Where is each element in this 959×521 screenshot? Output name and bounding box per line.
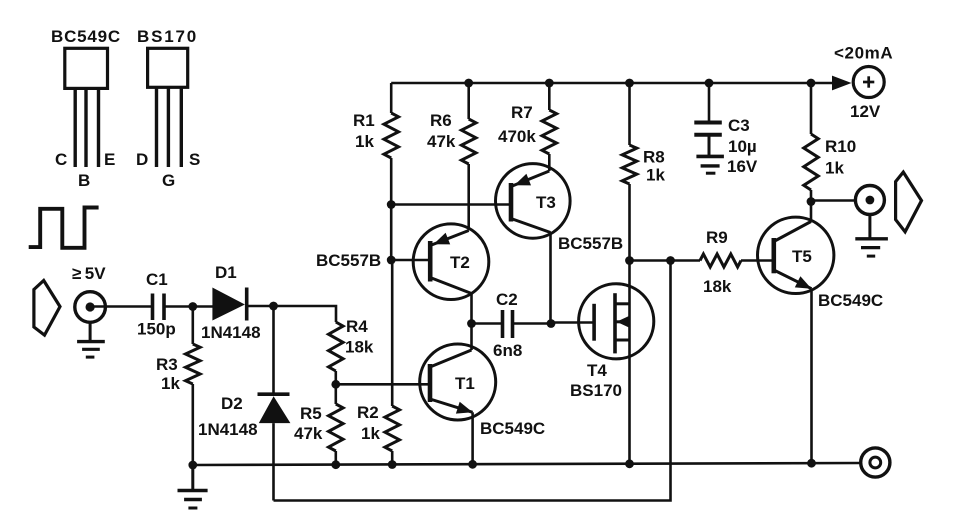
resistor R2 (1k) — [357, 260, 400, 465]
svg-text:R8: R8 — [643, 148, 665, 167]
resistor R5 (47k) — [294, 384, 343, 465]
wire T3 base — [391, 203, 511, 206]
junction node R8/T4-drain — [625, 256, 634, 265]
wire connector to C1 — [90, 305, 151, 308]
svg-text:18k: 18k — [345, 338, 374, 357]
svg-text:BC549C: BC549C — [480, 419, 545, 438]
package BS170 leg S (source) — [180, 87, 183, 167]
svg-text:D2: D2 — [221, 394, 243, 413]
svg-text:R6: R6 — [430, 111, 452, 130]
MOSFET T4 (BS170) — [570, 284, 654, 400]
svg-text:BC549C: BC549C — [818, 291, 883, 310]
wire T2 base — [391, 259, 430, 262]
svg-text:R2: R2 — [357, 403, 379, 422]
svg-text:47k: 47k — [427, 132, 456, 151]
wire T5 emitter to rail — [810, 289, 813, 465]
resistor R4 (18k) — [329, 317, 374, 384]
junction node rail/T4-source — [625, 459, 634, 468]
svg-text:R5: R5 — [300, 404, 322, 423]
junction node feedback/R9 — [666, 256, 675, 265]
square-wave input symbol — [29, 208, 99, 248]
svg-text:C3: C3 — [728, 116, 750, 135]
svg-text:BC549C: BC549C — [51, 27, 121, 46]
svg-text:≥ 5V: ≥ 5V — [72, 264, 106, 283]
transistor T3 (BC557B, PNP) — [496, 164, 571, 239]
svg-text:R4: R4 — [346, 317, 368, 336]
svg-text:C2: C2 — [496, 290, 518, 309]
junction node rail/T5-emitter — [807, 459, 816, 468]
input signal arrow — [34, 281, 60, 336]
wire T4 gate — [551, 321, 594, 324]
wire T1 emitter to rail — [471, 412, 474, 465]
svg-text:R9: R9 — [706, 228, 728, 247]
svg-text:1k: 1k — [355, 132, 374, 151]
junction node rail/R8 — [625, 79, 634, 88]
wire node to feedback node — [630, 259, 671, 262]
wire node to R9 — [671, 259, 701, 262]
junction node rail/R2 — [388, 460, 397, 469]
resistor R1 (1k) — [353, 83, 399, 260]
svg-text:T2: T2 — [450, 253, 470, 272]
wire C1 to D1 — [164, 305, 213, 308]
wire D2 to feedback rail — [272, 423, 275, 500]
svg-text:BC557B: BC557B — [558, 234, 623, 253]
svg-text:1N4148: 1N4148 — [201, 323, 261, 342]
svg-text:1k: 1k — [646, 166, 665, 185]
junction node rail/R6 — [464, 79, 473, 88]
transistor T1 (BC549C, NPN) — [420, 344, 496, 420]
output signal arrow — [896, 172, 922, 232]
wire R9 to T5 base — [741, 259, 774, 262]
svg-text:1k: 1k — [161, 374, 180, 393]
junction node R1/R2/T2-base — [387, 256, 396, 265]
wire ground bottom rail — [193, 463, 861, 465]
transistor T2 (BC557B, PNP) — [413, 224, 489, 300]
junction node T1-coll/T2-coll/C2 — [467, 319, 476, 328]
diode D2 (1N4148) — [198, 394, 290, 439]
svg-text:E: E — [104, 150, 115, 169]
ground (input connector) — [77, 322, 105, 357]
svg-text:<20mA: <20mA — [834, 44, 893, 63]
junction node R1/T3-base — [387, 200, 396, 209]
resistor R6 (47k) — [427, 83, 476, 231]
package BS170 leg G (gate) — [167, 87, 170, 167]
output connector — [855, 186, 884, 215]
junction node rail/C3 — [705, 79, 714, 88]
junction node rail/R7 — [545, 79, 554, 88]
svg-text:C: C — [55, 150, 67, 169]
svg-text:470k: 470k — [498, 127, 536, 146]
svg-text:T4: T4 — [587, 361, 607, 380]
svg-text:10µ: 10µ — [728, 137, 757, 156]
wire T2 collector down — [470, 294, 473, 324]
ground (main, bottom left) — [178, 465, 208, 508]
wire T5 collector up — [810, 202, 813, 222]
ground (output connector) — [855, 215, 888, 257]
capacitor C1 (150p) — [137, 270, 176, 339]
diode D1 (1N4148) — [201, 263, 261, 342]
svg-text:S: S — [189, 150, 200, 169]
ground (C3) — [696, 156, 724, 173]
svg-text:150p: 150p — [137, 320, 176, 339]
svg-text:BS170: BS170 — [137, 27, 198, 46]
junction node rail/T1-emitter — [468, 460, 477, 469]
svg-text:D1: D1 — [215, 263, 237, 282]
package BC549C leg E (emitter) — [97, 88, 100, 167]
resistor R8 (1k) — [622, 83, 665, 261]
junction node R4/R5/T1-base — [331, 380, 340, 389]
wire output — [811, 199, 856, 202]
package BC549C leg C (collector) — [73, 88, 76, 167]
wire +12V top rail — [391, 82, 835, 85]
terminal O (0V) — [861, 448, 890, 477]
svg-text:D: D — [136, 150, 148, 169]
supply arrowhead into 12V terminal — [832, 76, 852, 91]
wire C2 right — [513, 322, 552, 325]
svg-text:12V: 12V — [850, 102, 881, 121]
supply connector +12V — [834, 44, 893, 122]
capacitor C3 (10u 16V) — [694, 83, 758, 176]
wire feedback (D2 to R9 node) — [274, 261, 671, 501]
junction node rail/R3-ground — [188, 461, 197, 470]
svg-text:T1: T1 — [455, 374, 475, 393]
input connector (>=5V) — [72, 264, 106, 322]
svg-text:1N4148: 1N4148 — [198, 420, 258, 439]
wire T1 base — [336, 383, 430, 386]
svg-text:BS170: BS170 — [570, 381, 622, 400]
transistor package outline BS170 — [137, 27, 198, 87]
svg-text:R1: R1 — [353, 111, 375, 130]
package BS170 leg D (drain) — [155, 87, 158, 167]
package BC549C leg B (base) — [84, 88, 87, 167]
wire node to R4 — [274, 306, 337, 322]
svg-text:16V: 16V — [727, 157, 758, 176]
junction node C2/T3-coll/T4-gate — [547, 319, 556, 328]
svg-text:R3: R3 — [156, 355, 178, 374]
wire node to D2 — [272, 306, 275, 394]
svg-text:C1: C1 — [146, 270, 168, 289]
svg-text:B: B — [78, 171, 90, 190]
junction node D1/D2/R4 — [269, 302, 278, 311]
junction node C1/R3/D1 — [188, 302, 197, 311]
resistor R9 (18k) — [700, 228, 741, 296]
junction node rail/R5 — [331, 460, 340, 469]
wire T4 drain up / source down — [628, 261, 631, 466]
wire T3 collector down — [549, 233, 552, 324]
transistor package outline BC549C — [51, 27, 121, 88]
svg-text:R10: R10 — [825, 137, 856, 156]
svg-text:R7: R7 — [511, 103, 533, 122]
resistor R10 (1k) — [804, 83, 856, 202]
svg-text:T5: T5 — [792, 247, 812, 266]
junction node rail/R10 — [807, 79, 816, 88]
svg-text:G: G — [162, 171, 175, 190]
resistor R7 (470k) — [498, 83, 557, 171]
capacitor C2 (6n8) — [493, 290, 522, 360]
svg-text:T3: T3 — [536, 193, 556, 212]
wire T1 collector up — [470, 324, 473, 351]
svg-text:18k: 18k — [703, 277, 732, 296]
resistor R3 (1k) — [156, 307, 200, 466]
svg-text:1k: 1k — [825, 159, 844, 178]
wire D1 to node — [247, 305, 274, 308]
junction node T5-coll/R10/output — [807, 197, 816, 206]
svg-text:6n8: 6n8 — [493, 341, 522, 360]
svg-text:BC557B: BC557B — [316, 251, 381, 270]
svg-text:1k: 1k — [361, 424, 380, 443]
wire C2 left — [472, 322, 503, 325]
transistor T5 (BC549C, NPN) — [758, 217, 834, 293]
svg-text:47k: 47k — [294, 424, 323, 443]
